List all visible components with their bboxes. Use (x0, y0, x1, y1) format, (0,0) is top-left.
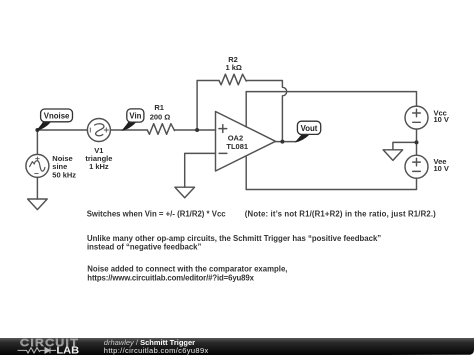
Vcc plus sign (413, 109, 421, 117)
op-amp OA2 triangle (216, 112, 276, 172)
V1 triangle-wave glyph (95, 124, 104, 136)
voltage source Vcc circle (405, 106, 428, 129)
wire supply midpoint to ground (393, 142, 417, 149)
wire V1 to R1 (110, 129, 147, 131)
wire noise top vertical (36, 130, 38, 154)
ground for op-amp minus input (175, 187, 195, 198)
ground for noise source (28, 199, 48, 210)
resistor R2 zigzag (219, 74, 246, 85)
wire feedback left vertical to node (197, 81, 219, 131)
footer logo schematic doodle wire with resistor and diode (18, 348, 57, 354)
V1 plus sign (right) (104, 128, 108, 132)
node flag Vout (296, 121, 321, 142)
svg-text:LAB: LAB (56, 346, 79, 355)
footer bar (0, 338, 474, 355)
wire Vcc supply top rail (246, 92, 416, 107)
svg-text:R1: R1 (154, 103, 164, 112)
svg-text:10 V: 10 V (434, 164, 449, 173)
node junction dot at Vnoise corner (35, 128, 39, 132)
svg-text:(Note: it’s not R1/(R1+R2) in: (Note: it’s not R1/(R1+R2) in the ratio,… (245, 209, 436, 218)
Vee minus sign (413, 170, 421, 172)
svg-text:Vout: Vout (301, 124, 318, 133)
noise source minus sign (35, 172, 39, 174)
V1 minus sign (left, rotated) (89, 128, 91, 132)
svg-text:https://www.circuitlab.com/edi: https://www.circuitlab.com/editor/#?id=6… (87, 274, 254, 283)
wire noise bottom vertical (36, 177, 38, 199)
svg-text:http://circuitlab.com/c6yu89x: http://circuitlab.com/c6yu89x (104, 346, 209, 355)
ground for supply midpoint (383, 150, 403, 161)
svg-text:50 kHz: 50 kHz (52, 171, 76, 180)
wire R1 to op-amp plus input (175, 129, 216, 131)
node flag Vnoise (37, 109, 72, 130)
wire Vee bottom rail to op-amp V- (246, 178, 416, 189)
node flag Vin (122, 109, 144, 130)
op-amp V+ power pin stub (245, 92, 247, 127)
svg-text:1 kΩ: 1 kΩ (225, 63, 241, 72)
wire R2 right to vertical drop with hop over supply wire (246, 81, 286, 142)
svg-text:10 V: 10 V (434, 115, 449, 124)
svg-text:Vnoise: Vnoise (44, 112, 70, 121)
svg-text:TL081: TL081 (226, 142, 248, 151)
wire main net noise to V1 (37, 129, 87, 131)
svg-text:1 kHz: 1 kHz (89, 162, 109, 171)
wire Vcc to Vee (416, 129, 418, 155)
node junction dot at output (280, 140, 284, 144)
op-amp minus input marker (219, 152, 227, 154)
wire op-amp minus input to ground (185, 153, 216, 187)
svg-text:Switches when Vin = +/- (R1/R2: Switches when Vin = +/- (R1/R2) * Vcc (87, 209, 227, 218)
svg-text:Noise added to connect with th: Noise added to connect with the comparat… (87, 265, 287, 274)
svg-text:Vin: Vin (129, 112, 141, 121)
resistor R1 zigzag (147, 124, 174, 135)
node junction dot at R2 left / plus input (195, 128, 199, 132)
noise source plus sign (36, 157, 40, 160)
svg-text:200 Ω: 200 Ω (150, 112, 171, 121)
noise source waveform glyph (30, 161, 45, 171)
Vee plus sign (413, 158, 421, 166)
wire op-amp output to Vout (276, 141, 297, 143)
op-amp V- power pin stub (245, 156, 247, 190)
node junction dot at supply midpoint (415, 140, 419, 144)
op-amp plus input marker (219, 125, 227, 133)
svg-text:instead of “negative feedback”: instead of “negative feedback” (87, 242, 201, 251)
voltage source V1 circle (87, 119, 110, 142)
noise source VNoise circle (26, 154, 49, 177)
voltage source Vee circle (405, 155, 428, 178)
Vcc minus sign (413, 121, 421, 123)
